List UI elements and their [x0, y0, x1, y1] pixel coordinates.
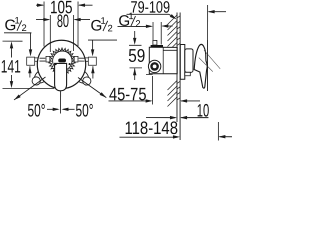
- svg-text:2: 2: [108, 22, 113, 33]
- svg-text:80: 80: [57, 11, 69, 31]
- svg-text:59: 59: [128, 45, 145, 66]
- svg-text:10: 10: [197, 101, 210, 121]
- svg-text:50°: 50°: [27, 100, 45, 120]
- svg-text:1: 1: [15, 14, 20, 25]
- svg-text:1: 1: [101, 15, 106, 26]
- svg-text:118-148: 118-148: [124, 118, 178, 138]
- svg-text:141: 141: [1, 57, 21, 77]
- svg-text:2: 2: [135, 18, 140, 29]
- svg-text:50°: 50°: [75, 100, 93, 120]
- svg-text:2: 2: [22, 22, 27, 33]
